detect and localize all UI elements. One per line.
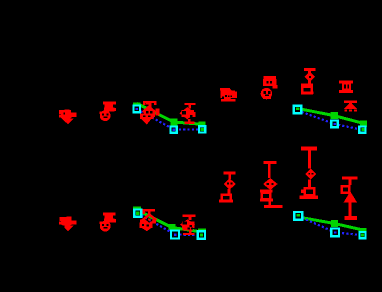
- cyan square marker U3: [359, 232, 365, 238]
- cyan square marker S5: [331, 120, 338, 127]
- red cluster B2: [99, 212, 116, 231]
- blue dotted line series top-right: [298, 111, 364, 131]
- red cluster A5: [220, 88, 237, 102]
- cyan square marker S3: [199, 126, 205, 132]
- cyan square marker U1: [294, 212, 302, 220]
- cyan square marker S2: [171, 127, 177, 133]
- green line series bottom-left: [133, 206, 206, 236]
- red cluster A8: [339, 80, 357, 111]
- cyan square marker T3: [198, 231, 205, 238]
- red cluster D5: [219, 171, 236, 202]
- red cluster A6: [261, 76, 278, 99]
- green line series bottom-right: [298, 217, 366, 234]
- red cluster C4: [180, 214, 196, 235]
- blue dotted line series top-left: [137, 109, 202, 129]
- cyan square marker T1: [134, 210, 141, 217]
- red cluster A7: [301, 68, 316, 94]
- red cluster A3: [140, 101, 160, 125]
- red cluster D8: [342, 176, 358, 220]
- cyan square marker S1: [133, 106, 140, 113]
- cyan square marker S4: [294, 106, 302, 114]
- blue dotted line series bottom-right: [298, 216, 362, 235]
- red cluster B1: [59, 217, 76, 232]
- red cluster D6: [260, 161, 283, 208]
- red cluster A4: [179, 103, 195, 124]
- red cluster D7: [300, 146, 319, 199]
- blue dotted line series bottom-left: [138, 213, 202, 235]
- red cluster A2: [99, 101, 116, 121]
- green line series top-right: [298, 109, 367, 127]
- red cluster C3: [140, 209, 157, 231]
- green line series top-left: [133, 102, 206, 127]
- red cluster A1: [59, 109, 77, 124]
- cyan square marker S6: [359, 127, 365, 133]
- cyan square marker U2: [331, 229, 339, 237]
- cyan square marker T2: [171, 231, 179, 239]
